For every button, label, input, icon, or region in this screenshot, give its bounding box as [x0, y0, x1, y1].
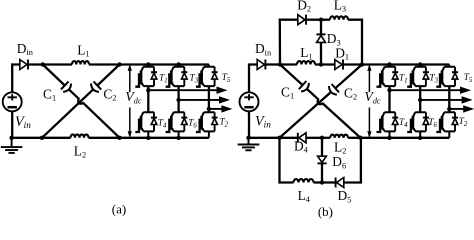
diode D4 (b)	[299, 133, 306, 143]
bottom rail (b)	[362, 137, 449, 139]
transistor T6 (a)	[174, 112, 185, 138]
wire L2 to node D (a)	[89, 137, 120, 139]
phase node leg1 (b)	[387, 88, 391, 92]
wire source to ground junction (a)	[11, 111, 13, 138]
main top junction (b)	[319, 62, 323, 66]
bottom junction node (b)	[320, 136, 324, 140]
wire D1 to node B (b)	[343, 63, 362, 65]
capacitor C2 (a)	[94, 81, 102, 89]
transistor T2 (a)	[204, 112, 215, 138]
node D (a)	[117, 136, 121, 140]
wire ground junction to node C (a)	[12, 137, 42, 139]
wire Din to node A (b)	[265, 63, 280, 65]
transistor T3 (b)	[415, 65, 426, 87]
phase node leg2 (a)	[176, 98, 180, 102]
inductor L1 (b)	[297, 61, 315, 64]
capacitor C1 (a)	[61, 81, 69, 89]
Vdc arrow (b)	[368, 70, 370, 132]
ground (b)	[248, 138, 250, 144]
wire source to diode Din (b)	[249, 65, 257, 93]
bottom rail junction leg1 (b)	[387, 136, 391, 140]
wire source to diode Din (a)	[12, 65, 20, 93]
wire upper junction to D3 (b)	[320, 20, 322, 34]
inductor L1 (a)	[72, 61, 89, 64]
bottom rail junction leg2 (a)	[176, 136, 180, 140]
top rail junction leg1 (a)	[146, 62, 150, 66]
wire node A to L1 (a)	[43, 63, 72, 65]
diode Din (a)	[20, 60, 27, 70]
wire upper junction to L3 (b)	[321, 19, 330, 21]
transistor T1 (b)	[385, 65, 396, 87]
transistor T5 (a)	[204, 65, 215, 87]
wire L3 to node B (b)	[348, 20, 362, 65]
node A (b)	[278, 62, 282, 66]
wire D4 to bottom junction (b)	[306, 137, 322, 139]
diode D3 (b)	[317, 35, 326, 42]
wire node C to D4 (b)	[280, 137, 298, 139]
svg-text:(a): (a)	[112, 201, 126, 216]
wire leg2 midpoint (a)	[177, 86, 179, 112]
ground junction (b)	[246, 136, 250, 140]
output phase 2 arrow (b)	[420, 99, 463, 101]
voltage source Vin (b)	[240, 92, 259, 111]
wire ground junction to node C (b)	[249, 137, 280, 139]
diagonal wire C2 to node C (b)	[280, 92, 332, 138]
diagonal wire C1 to node D (b)	[307, 89, 361, 138]
wire node C down to lower branch (b)	[280, 138, 294, 183]
wire leg3 midpoint (a)	[208, 86, 210, 112]
top rail (b)	[362, 63, 449, 65]
wire leg1 midpoint (b)	[388, 86, 390, 112]
diagonal wire node B to C2 (b)	[335, 65, 362, 89]
node C (a)	[40, 136, 44, 140]
lower junction node (b)	[320, 180, 324, 184]
transistor T2 (b)	[444, 112, 455, 138]
node D (b)	[358, 136, 362, 140]
top rail junction leg2 (b)	[418, 62, 422, 66]
diagonal wire node B to C2 (a)	[97, 65, 119, 86]
phase node leg3 (a)	[207, 107, 211, 111]
upper junction node (b)	[319, 18, 323, 22]
capacitor C2 (b)	[332, 84, 339, 92]
diode D2 (b)	[298, 15, 305, 25]
output phase 3 arrow (b)	[449, 108, 465, 110]
transistor T4 (a)	[143, 112, 154, 138]
output phase 3 arrow (a)	[209, 108, 224, 110]
inductor L2 (a)	[71, 134, 89, 137]
wire node A up to upper branch (b)	[280, 20, 298, 65]
top rail junction leg1 (b)	[387, 62, 391, 66]
transistor T6 (b)	[415, 112, 426, 138]
wire node A to L1 (b)	[280, 63, 297, 65]
phase node leg2 (b)	[418, 98, 422, 102]
wire source to ground junction (b)	[248, 111, 250, 138]
inductor L2 (b)	[330, 135, 348, 138]
wire Din to node A (a)	[28, 63, 43, 65]
wire lower junction to D5 (b)	[322, 181, 335, 183]
Vdc arrow (a)	[129, 70, 131, 132]
transistor T1 (a)	[143, 65, 154, 87]
transistor T4 (b)	[385, 112, 396, 138]
diagonal wire C1 to node D (a)	[69, 89, 120, 137]
wire bottom junction to L2 (b)	[322, 137, 330, 139]
diode D1 (b)	[335, 60, 342, 70]
wire D3 to main junction (b)	[320, 42, 322, 64]
wire D2 to upper junction (b)	[306, 19, 321, 21]
inductor L4 (b)	[294, 179, 314, 182]
wire L4 to lower junction (b)	[314, 181, 323, 183]
diode Din (b)	[257, 60, 264, 70]
node C (b)	[277, 136, 281, 140]
bottom rail junction leg1 (a)	[146, 136, 150, 140]
phase node leg1 (a)	[146, 88, 150, 92]
diode D5 (b)	[337, 178, 344, 188]
transistor T3 (a)	[174, 65, 185, 87]
output phase 1 arrow (a)	[148, 89, 218, 91]
diode D6 (b)	[318, 156, 327, 162]
bottom rail (a)	[120, 137, 209, 139]
node B (b)	[360, 62, 364, 66]
ground (a)	[11, 138, 13, 146]
voltage source Vin (a)	[3, 92, 22, 111]
svg-text:(b): (b)	[318, 204, 333, 219]
output phase 2 arrow (a)	[179, 99, 221, 101]
wire leg3 midpoint (b)	[448, 86, 450, 112]
top rail (a)	[120, 63, 209, 65]
bottom rail junction leg2 (b)	[418, 136, 422, 140]
top rail junction leg2 (a)	[176, 62, 180, 66]
transistor T5 (b)	[444, 65, 455, 87]
wire leg1 midpoint (a)	[147, 86, 149, 112]
wire L1 to main junction (b)	[315, 63, 335, 65]
inductor L3 (b)	[330, 16, 348, 19]
diagonal wire C2 to node C (a)	[42, 89, 93, 137]
wire L1 to node B (a)	[89, 63, 120, 65]
wire leg2 midpoint (b)	[419, 86, 421, 112]
phase node leg3 (b)	[447, 107, 451, 111]
capacitor C1 (b)	[299, 81, 307, 89]
wire node C to L2 (a)	[42, 137, 71, 139]
wire D5 to node D (b)	[344, 138, 361, 183]
wire bottom junction to D6 (b)	[321, 138, 323, 157]
diagonal wire node A to C1 (b)	[280, 65, 303, 86]
node A (a)	[41, 62, 45, 66]
output phase 1 arrow (b)	[390, 89, 463, 91]
wire L2 to node D (b)	[348, 137, 361, 139]
wire D6 to lower branch (b)	[321, 163, 323, 182]
ground junction (a)	[9, 136, 13, 140]
diagonal wire node A to C1 (a)	[43, 65, 65, 86]
node B (a)	[117, 62, 121, 66]
